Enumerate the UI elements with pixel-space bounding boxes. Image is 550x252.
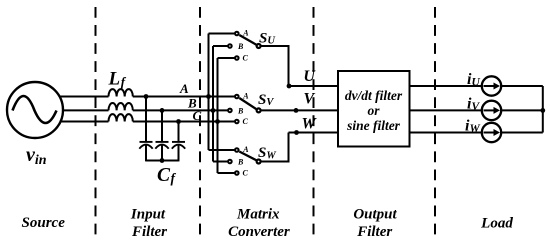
output filter box [338, 71, 410, 147]
svg-text:A: A [242, 29, 249, 38]
svg-text:C: C [243, 53, 249, 62]
switch SW pole [257, 160, 261, 164]
svg-text:C: C [243, 168, 249, 177]
wire phase B from source to inductor [63, 109, 109, 111]
junction dot node V [294, 108, 299, 113]
switch SU contact B terminal [228, 44, 232, 48]
wire V load to right bus [502, 109, 543, 111]
junction dot phase B at capacitor tap [160, 108, 165, 113]
switch SU contact B wire [213, 45, 228, 47]
svg-text:sine filter: sine filter [346, 118, 401, 133]
svg-text:Source: Source [22, 215, 66, 231]
input bus B vertical wire [212, 46, 214, 162]
capacitor Cf phase B [155, 110, 168, 161]
junction dot phase A at capacitor tap [144, 94, 149, 99]
wire U filter box to load [410, 85, 482, 87]
capacitor Cf phase A [139, 97, 152, 162]
switch SW output wire to node W [261, 133, 288, 162]
switch SV contact A terminal [235, 95, 239, 99]
switch SV arm [239, 98, 256, 109]
svg-text:U: U [303, 68, 316, 85]
junction dot phase C at bus C [215, 119, 220, 124]
junction dot node W [294, 130, 299, 135]
switch SW contact A terminal [235, 148, 239, 152]
svg-text:C: C [193, 108, 202, 123]
svg-text:A: A [242, 145, 249, 154]
wire U to output filter [289, 85, 339, 87]
switch SU contact A wire [209, 33, 235, 35]
junction dot phase A at bus A [206, 94, 211, 99]
load right bus vertical wire [542, 86, 544, 133]
junction dot right bus [540, 108, 545, 113]
wire W to output filter [289, 132, 339, 134]
wire U load to right bus [502, 85, 543, 87]
svg-text:Converter: Converter [228, 224, 290, 240]
inductor Lf phase A [109, 89, 133, 96]
svg-text:A: A [179, 81, 189, 96]
junction dot phase B at bus B [211, 108, 216, 113]
section divider dashed line 2 [199, 7, 201, 235]
svg-text:C: C [243, 117, 249, 126]
wire phase A inductor to converter [133, 96, 235, 98]
wire V filter box to load [410, 109, 482, 111]
junction dot capacitor rail [160, 158, 165, 163]
switch SV contact C terminal [235, 120, 239, 124]
inductor Lf phase B [109, 103, 133, 110]
switch SW arm [239, 152, 256, 161]
switch SW contact A wire [209, 149, 235, 151]
input bus C vertical wire [217, 58, 219, 173]
wire W filter box to load [410, 132, 482, 134]
svg-text:A: A [242, 92, 249, 101]
svg-text:Filter: Filter [356, 224, 392, 240]
svg-text:or: or [367, 103, 380, 118]
svg-text:W: W [302, 115, 318, 132]
junction dot phase C at capacitor tap [176, 119, 181, 124]
input bus A vertical wire [208, 34, 210, 151]
svg-text:V: V [304, 91, 316, 108]
switch SW contact C wire [218, 172, 235, 174]
load current source iV [482, 101, 501, 120]
capacitor Cf phase C [172, 122, 185, 162]
section divider dashed line 3 [313, 7, 315, 235]
switch SU contact C terminal [235, 56, 239, 60]
svg-text:B: B [237, 42, 244, 51]
switch SU pole [257, 44, 261, 48]
switch SW contact B terminal [228, 160, 232, 164]
section divider dashed line 4 [434, 7, 436, 235]
section divider dashed line 1 [95, 7, 97, 235]
wire W load to right bus [502, 132, 543, 134]
switch SW contact C terminal [235, 171, 239, 175]
AC source Vin [7, 82, 63, 138]
load current source iU [482, 76, 501, 95]
switch SV contact B terminal [228, 109, 232, 113]
wire phase A from source to inductor [60, 96, 109, 98]
capacitor common rail wire [146, 160, 179, 162]
switch SV pole [257, 108, 261, 112]
svg-text:Load: Load [480, 215, 513, 231]
svg-text:Filter: Filter [131, 224, 167, 240]
svg-text:Input: Input [130, 207, 166, 223]
svg-text:B: B [237, 158, 244, 167]
svg-text:Matrix: Matrix [236, 207, 280, 223]
switch SU output wire to node U [261, 46, 288, 86]
switch SU contact A terminal [235, 32, 239, 36]
switch SU arm [239, 35, 256, 45]
svg-text:B: B [237, 107, 244, 116]
svg-text:dv/dt filter: dv/dt filter [345, 88, 403, 103]
wire phase C inductor to converter [133, 121, 235, 123]
wire phase C from source to inductor [61, 121, 109, 123]
wire V to output filter [261, 109, 338, 111]
inductor Lf phase C [109, 114, 133, 121]
switch SU contact C wire [218, 57, 235, 59]
wire phase B inductor to converter [133, 109, 228, 111]
load current source iW [482, 123, 501, 142]
junction dot node U [287, 84, 292, 89]
svg-text:Output: Output [353, 207, 397, 223]
switch SW contact B wire [213, 161, 228, 163]
